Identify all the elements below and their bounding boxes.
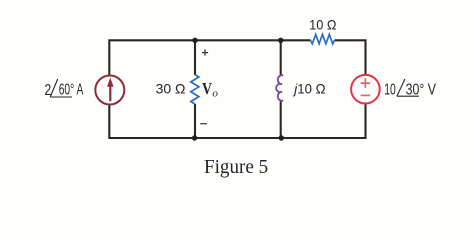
plus mark for Vo [202, 50, 208, 56]
svg-text:10 Ω: 10 Ω [309, 16, 336, 32]
voltage source minus [361, 94, 371, 96]
wire 30-ohm branch upper [194, 40, 196, 75]
inductor j10 ohm (coil) [276, 75, 283, 101]
svg-text:V: V [202, 79, 212, 98]
wire outer loop [109, 40, 365, 138]
node C (bottom left junction) [192, 135, 197, 140]
node D (bottom right junction) [279, 135, 284, 140]
minus mark for Vo [200, 123, 207, 125]
resistor 30 ohm (vertical zigzag) [191, 75, 199, 104]
svg-text:60° A: 60° A [59, 82, 84, 99]
svg-text:30° V: 30° V [406, 81, 437, 98]
svg-text:Figure 5: Figure 5 [204, 157, 268, 178]
wire inductor branch upper [280, 40, 282, 75]
node B (top right junction) [278, 38, 283, 43]
voltage source plus [361, 78, 371, 88]
svg-text:30 Ω: 30 Ω [156, 80, 186, 96]
resistor 10 ohm (horizontal zigzag) [311, 34, 335, 44]
svg-text:j10 Ω: j10 Ω [292, 80, 325, 96]
current source I1 circle [95, 76, 124, 105]
wire 30-ohm branch lower [194, 104, 196, 138]
voltage source V1 circle [351, 75, 380, 104]
wire inductor branch lower [280, 101, 282, 138]
svg-text:10: 10 [384, 82, 396, 99]
node A (top left junction) [192, 38, 197, 43]
svg-text:o: o [212, 88, 218, 100]
current source arrow [109, 85, 111, 102]
